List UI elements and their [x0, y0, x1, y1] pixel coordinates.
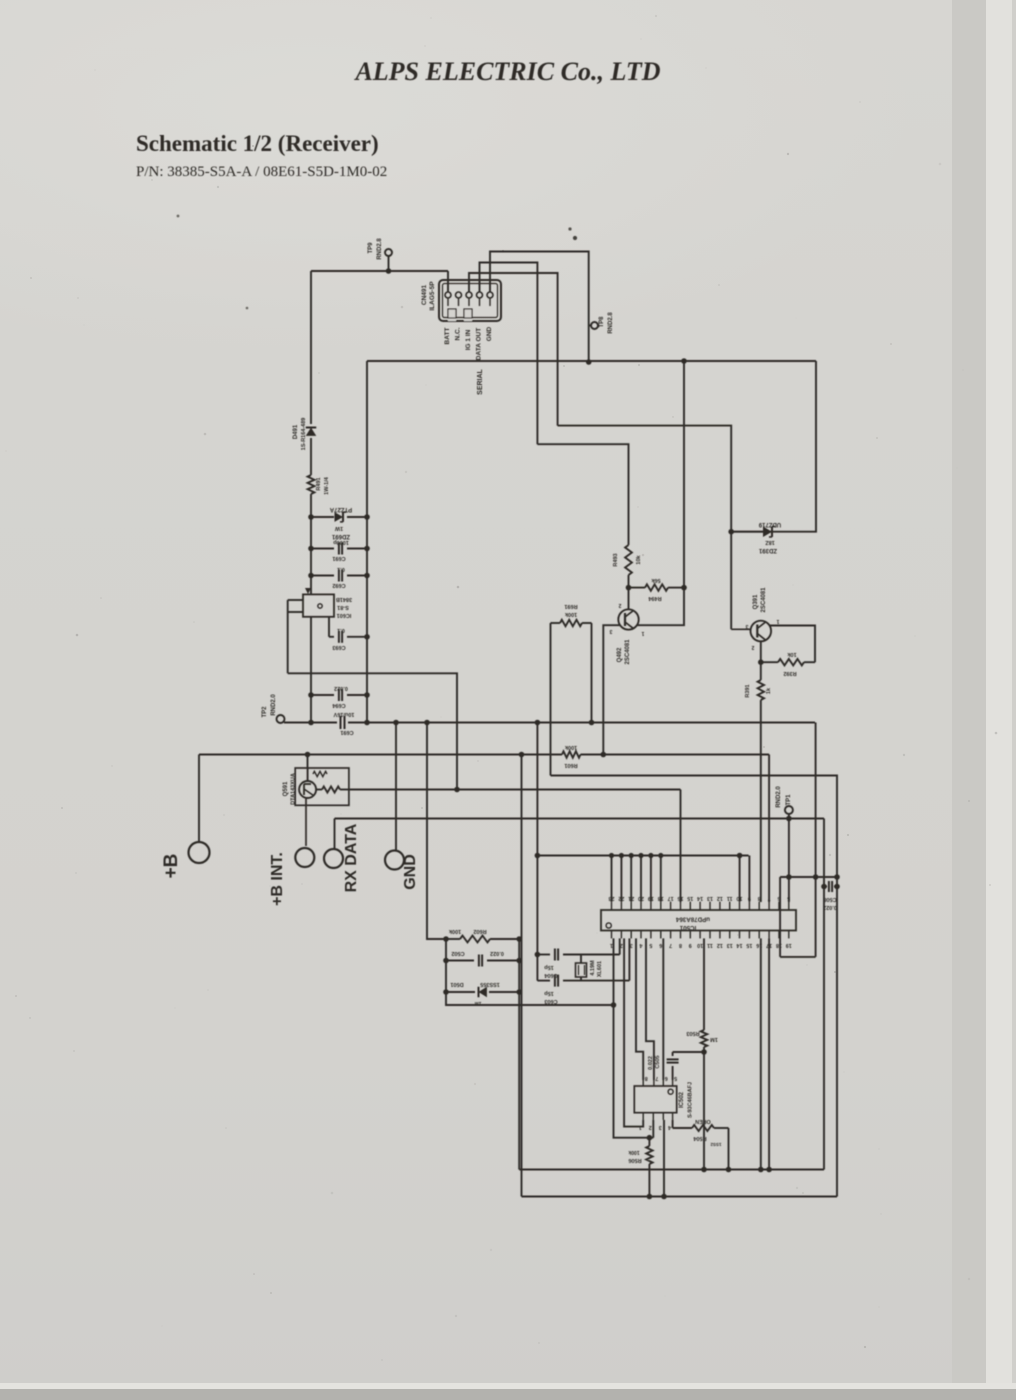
svg-text:R691: R691: [564, 603, 577, 609]
svg-text:2SC4081: 2SC4081: [761, 587, 767, 613]
wire base line drop to IC501 top pin: [680, 790, 682, 903]
svg-text:R602: R602: [473, 928, 486, 934]
svg-text:6: 6: [659, 942, 662, 948]
svg-text:1: 1: [776, 618, 779, 624]
junction feedback on base line: [454, 787, 460, 793]
terminal +B INT: [295, 848, 314, 867]
wire IC502 pin6 riser: [662, 938, 664, 1080]
wire Q391 emitter: [760, 641, 762, 662]
svg-text:1SS355: 1SS355: [480, 981, 500, 987]
svg-text:C502: C502: [451, 950, 464, 956]
capacitor C693 0.1: [329, 636, 334, 638]
capacitor C604 15p: [537, 954, 550, 956]
svg-text:C603: C603: [544, 998, 557, 1004]
capacitor C508 0.022: [824, 886, 827, 888]
wire riser A corner up to IC502 pin2: [652, 1120, 654, 1138]
crystal XL601 4.19MHz: [580, 955, 582, 964]
wire Q591 base line to IC501 pin riser: [349, 789, 681, 791]
svg-text:RND2.8: RND2.8: [377, 238, 383, 260]
capacitor C505 0.022: [672, 1066, 674, 1080]
svg-text:TP1: TP1: [786, 794, 792, 806]
test point TP8: [589, 325, 591, 327]
svg-text:Q492: Q492: [617, 647, 623, 662]
wires bus to IC501 top pins: [609, 853, 664, 902]
junction loop on rail: [589, 720, 595, 726]
svg-text:C691: C691: [332, 555, 345, 561]
junction bottom rail R503: [701, 1167, 707, 1173]
svg-text:R493: R493: [613, 553, 619, 566]
IC502 bottom pins: [639, 1113, 673, 1130]
wire lower rail y=1196.5: [522, 1196, 838, 1198]
svg-text:R504: R504: [692, 1135, 706, 1141]
svg-text:CN491: CN491: [421, 284, 428, 305]
svg-text:C691: C691: [340, 729, 353, 735]
wire R691 loop right vertical to rail: [591, 623, 593, 723]
wire +B long vertical down to lower rail: [521, 755, 523, 1197]
resistor R391 1k: [760, 662, 762, 680]
svg-text:Q591: Q591: [283, 781, 289, 796]
svg-text:RND2.0: RND2.0: [776, 786, 782, 808]
wire IC502 pin8 riser: [636, 938, 643, 1080]
node junction TP9 on BATT wire: [386, 268, 392, 274]
svg-text:14: 14: [697, 895, 703, 901]
wire bottom pin riser x=760.8 to bottom rail: [760, 938, 762, 1169]
svg-text:DATA OUT: DATA OUT: [476, 328, 483, 360]
svg-text:RX DATA: RX DATA: [343, 823, 360, 892]
wire horizontal y=775.5 to right vertical: [551, 776, 838, 1197]
wire main rail y=722.5: [284, 722, 337, 724]
svg-text:4: 4: [668, 1124, 671, 1130]
svg-text:SERIAL: SERIAL: [477, 368, 484, 394]
svg-text:0.022: 0.022: [823, 904, 837, 910]
junction R494/emitter riser: [681, 585, 687, 591]
svg-text:N.C.: N.C.: [455, 327, 462, 340]
svg-text:15p: 15p: [544, 964, 554, 970]
wire R691 loop left vertical: [550, 623, 552, 776]
svg-text:3: 3: [659, 1124, 662, 1130]
svg-text:1M: 1M: [710, 1036, 718, 1042]
junction lower rail pin3 drop: [661, 1194, 667, 1200]
svg-text:R391: R391: [745, 684, 751, 697]
connector CN491 pin 3: [466, 292, 472, 298]
ink mark: [568, 227, 571, 230]
svg-text:TP8: TP8: [599, 316, 605, 328]
svg-text:R494: R494: [647, 595, 661, 601]
wire bus right risers: [739, 856, 741, 902]
wire +B rail: [199, 754, 562, 756]
svg-text:15p: 15p: [544, 990, 554, 996]
svg-text:1W: 1W: [334, 525, 343, 531]
junction R506 tap: [647, 1135, 653, 1141]
terminal GND: [385, 851, 404, 870]
svg-text:0.022: 0.022: [334, 685, 348, 691]
junction emitter/R392: [758, 659, 764, 665]
junction y=1005 on riser A: [611, 1002, 617, 1008]
wire RX DATA horizontal to right side: [335, 818, 825, 820]
svg-text:S-81: S-81: [337, 604, 349, 610]
wire Q492 base drop: [603, 625, 619, 754]
svg-text:11: 11: [707, 942, 713, 948]
wire long horizontal net A y=362: [367, 360, 816, 362]
svg-text:1k: 1k: [766, 687, 772, 694]
svg-text:56k: 56k: [650, 577, 660, 583]
svg-text:19: 19: [786, 942, 792, 948]
svg-text:0.022: 0.022: [490, 950, 504, 956]
svg-text:15: 15: [746, 942, 752, 948]
transistor Q391 2SC4081: [751, 621, 772, 642]
svg-text:+B INT.: +B INT.: [269, 852, 286, 906]
svg-text:14: 14: [737, 942, 743, 948]
diode D501 1SS355: [446, 991, 475, 993]
svg-text:100k: 100k: [628, 1149, 639, 1155]
wire riser A IC501 pin to IC502: [614, 938, 654, 1137]
junction x=837 on loop: [834, 874, 840, 880]
svg-text:Q391: Q391: [753, 594, 759, 609]
svg-text:R503: R503: [686, 1030, 699, 1036]
svg-text:Schematic 1/2 (Receiver): Schematic 1/2 (Receiver): [136, 131, 379, 156]
svg-text:3: 3: [745, 623, 748, 629]
wire x=815.6 from rail to loop bottom: [815, 877, 817, 957]
wire wrap loop y=877: [780, 876, 837, 878]
svg-text:ZD391: ZD391: [758, 547, 777, 553]
svg-text:2SC4081: 2SC4081: [625, 639, 631, 665]
svg-text:ILAG5-5P: ILAG5-5P: [429, 281, 436, 311]
terminal +B: [189, 842, 210, 863]
svg-text:XL601: XL601: [597, 961, 603, 977]
svg-text:6: 6: [665, 1075, 668, 1081]
junction rail x=367: [364, 720, 370, 726]
svg-text:BATT: BATT: [444, 328, 451, 345]
IC501 uPD75304 box: [601, 910, 796, 931]
svg-text:D501: D501: [450, 981, 463, 987]
svg-text:TP2: TP2: [262, 706, 268, 718]
transistor Q591 DTA143XUA in box: [295, 768, 349, 805]
svg-text:IC601: IC601: [337, 612, 352, 618]
resistor R392 10k: [761, 661, 778, 663]
svg-text:8: 8: [758, 895, 761, 901]
junction TP8 riser on long horizontal: [586, 359, 592, 365]
junction +B rail long vertical: [519, 752, 525, 758]
wire riser B IC501 pin to IC502 pin1: [624, 938, 643, 1126]
svg-text:15: 15: [687, 895, 693, 901]
junction rail x=427: [424, 720, 430, 726]
wire IG riser horizontal to Q391 base riser: [558, 426, 732, 630]
svg-text:8: 8: [645, 1075, 648, 1081]
svg-text:1000p: 1000p: [333, 539, 349, 545]
test point TP1: [785, 806, 793, 814]
svg-text:7: 7: [669, 942, 672, 948]
svg-text:1S-R164-489: 1S-R164-489: [301, 418, 307, 451]
svg-text:1SS2: 1SS2: [710, 1142, 722, 1147]
svg-text:13: 13: [707, 895, 713, 901]
diode D491 1S-R164-489: [310, 271, 312, 424]
connector CN491 pin 2: [456, 292, 462, 298]
junction R602 left: [443, 936, 449, 942]
zener ZD691 PTZ27A: [311, 516, 334, 518]
junction rail x=396 GND riser: [393, 720, 399, 726]
wire wrap loop left vertical: [779, 877, 781, 957]
IC501 bottom pin stubs and numbers: [610, 931, 792, 949]
test point TP2: [277, 715, 285, 723]
svg-text:100k: 100k: [564, 744, 577, 750]
connector CN491 pin 5: [487, 292, 493, 298]
wire x=537 drop from rail to crystal block: [536, 723, 538, 981]
junction Q492 emitter riser on net A: [681, 358, 687, 364]
svg-text:R392: R392: [783, 670, 796, 676]
resistor R691 100k loop: [551, 622, 561, 624]
svg-text:0.022: 0.022: [648, 1056, 654, 1070]
resistor R504 OPEN: [672, 1120, 674, 1128]
svg-text:C508: C508: [823, 896, 836, 902]
svg-text:4.19M: 4.19M: [590, 960, 596, 976]
svg-text:UDZ719: UDZ719: [758, 521, 781, 527]
svg-text:IC501: IC501: [679, 924, 696, 931]
svg-text:OPEN: OPEN: [695, 1118, 711, 1124]
svg-text:1W-1/4: 1W-1/4: [324, 476, 330, 495]
wire +B rail right drop: [768, 755, 770, 903]
svg-text:13: 13: [727, 942, 733, 948]
svg-text:2: 2: [649, 1124, 652, 1130]
test point TP9: [385, 249, 392, 256]
junction bottom rail R504: [726, 1167, 732, 1173]
svg-text:16: 16: [678, 895, 684, 901]
wire net A right drop to zener: [731, 361, 816, 532]
svg-text:ZD691: ZD691: [331, 533, 350, 539]
junction +B rail Q591 emitter: [305, 752, 311, 758]
resistor R602 100k: [446, 938, 460, 940]
capacitor C691a 1000p: [311, 548, 334, 550]
resistor R506 100k: [648, 1138, 650, 1146]
svg-text:D491: D491: [293, 424, 299, 439]
terminal RX DATA: [324, 849, 343, 868]
svg-text:5: 5: [649, 942, 652, 948]
svg-text:uPD78A364: uPD78A364: [675, 916, 710, 923]
svg-text:17: 17: [668, 895, 674, 901]
svg-text:R601: R601: [564, 762, 577, 768]
svg-text:P/N: 38385-S5A-A / 08E61-S5D-1: P/N: 38385-S5A-A / 08E61-S5D-1M0-02: [136, 164, 387, 180]
junction rail x=537.4: [535, 720, 541, 726]
svg-text:12: 12: [717, 895, 723, 901]
IC501 top pin stubs and numbers: [609, 895, 791, 910]
wire pin5 GND riser to TP8 line: [490, 252, 589, 363]
junction TP1 line on C508 loop: [786, 874, 792, 880]
junction R503/C505: [701, 1049, 707, 1055]
svg-text:IG 1 IN: IG 1 IN: [465, 329, 472, 350]
svg-text:1: 1: [639, 1124, 642, 1130]
svg-text:100k: 100k: [448, 928, 461, 934]
svg-text:11: 11: [727, 895, 733, 901]
svg-text:2: 2: [751, 644, 754, 650]
svg-text:TP9: TP9: [368, 242, 374, 254]
junction collector/R494: [626, 585, 632, 591]
junction R602 right: [516, 936, 522, 942]
svg-text:5: 5: [674, 1075, 677, 1081]
wire BATT drop to connector pin 1: [447, 271, 449, 292]
svg-text:DTA143XUA: DTA143XUA: [291, 773, 297, 805]
wire IC601 left pins loop: [288, 599, 303, 601]
svg-text:3: 3: [609, 628, 612, 634]
wire pin3 IG riser: [469, 273, 558, 426]
svg-text:100k: 100k: [564, 611, 577, 617]
resistor R493 10k: [625, 545, 632, 575]
svg-text:PTZ27A: PTZ27A: [329, 506, 352, 512]
wire bus y=855.5: [537, 855, 748, 857]
wire collector chain from pin4 riser: [537, 444, 628, 545]
svg-text:0.1: 0.1: [337, 627, 345, 633]
connector CN491 pin 1: [445, 292, 451, 298]
svg-text:S-93C46BAFJ: S-93C46BAFJ: [688, 1082, 694, 1118]
wire pin4 DATA OUT riser: [480, 263, 538, 445]
junction lower rail R506: [647, 1194, 653, 1200]
svg-text:7: 7: [768, 895, 771, 901]
svg-text:3841B: 3841B: [336, 596, 352, 602]
junction bottom rail x=760.8: [758, 1167, 764, 1173]
capacitor C692 0.1: [311, 575, 334, 577]
wire TP1 drop to pin 23: [788, 819, 790, 903]
svg-text:0.1: 0.1: [337, 566, 345, 572]
svg-text:8: 8: [679, 942, 682, 948]
svg-text:+B: +B: [161, 854, 182, 879]
svg-text:10k: 10k: [636, 554, 642, 564]
svg-text:IC502: IC502: [679, 1091, 685, 1108]
IC502 S-93C46BAFJ box: [634, 1086, 676, 1113]
svg-text:C694: C694: [331, 702, 345, 708]
junction zener line with base riser: [728, 529, 734, 535]
svg-text:18: 18: [776, 942, 782, 948]
wire BATT horizontal: [311, 270, 448, 272]
junction +B rail Q492 base: [601, 752, 607, 758]
svg-text:4: 4: [640, 942, 643, 948]
capacitor C691 10u/16V electrolytic: [340, 716, 342, 729]
wire feedback to base line: [288, 673, 457, 789]
resistor R494 56k: [629, 587, 646, 589]
svg-text:10u/16V: 10u/16V: [333, 711, 354, 717]
wire bottom pin riser x=772.5 to bottom rail: [768, 938, 770, 1169]
svg-text:10k: 10k: [786, 651, 796, 657]
junction rail x=311: [308, 720, 314, 726]
wire left vertical to y=1005: [446, 939, 614, 1005]
wire R504 drop to bottom rail: [728, 1128, 730, 1170]
svg-text:RND2.8: RND2.8: [608, 312, 614, 334]
svg-text:ALPS ELECTRIC Co., LTD: ALPS ELECTRIC Co., LTD: [353, 57, 660, 86]
resistor R601 100k: [562, 751, 581, 757]
wire x=427 drop to R602: [427, 723, 446, 940]
IC502 top pins: [643, 1075, 677, 1086]
wire Q391 collector: [770, 626, 816, 663]
wire bottom rail y=1169.5: [519, 1169, 824, 1171]
transistor Q492 2SC4081: [618, 609, 638, 629]
wire second vertical x=367: [366, 361, 368, 723]
junction bottom rail x=772.5: [766, 1167, 772, 1173]
svg-text:1: 1: [641, 630, 644, 636]
capacitor C694 0.022: [311, 694, 334, 696]
resistor R491: [308, 475, 315, 494]
svg-text:C692: C692: [332, 582, 345, 588]
wire wrap loop bottom y=956.9: [780, 956, 816, 958]
svg-text:7: 7: [655, 1075, 658, 1081]
wire IC601 bottom to C693: [310, 617, 312, 723]
junction bus start: [535, 853, 541, 859]
zener diode ZD391: [763, 526, 772, 537]
svg-text:R491: R491: [316, 477, 322, 490]
svg-text:10: 10: [697, 942, 703, 948]
svg-text:C505: C505: [655, 1055, 661, 1068]
svg-text:GND: GND: [486, 326, 493, 341]
wire RX DATA line right drop: [823, 819, 825, 1170]
capacitor C502 0.022: [446, 960, 474, 962]
wire rail right end drop: [815, 723, 817, 878]
svg-text:C693: C693: [332, 644, 345, 650]
wire IC502 pin3 drop to lower rail: [663, 1120, 665, 1197]
wire Q591 emitter to +B rail: [307, 755, 309, 769]
resistor R503 1M: [703, 938, 705, 1030]
wire C604 riser to pin: [619, 938, 621, 954]
svg-text:5: 5: [787, 895, 790, 901]
svg-text:GND: GND: [402, 854, 419, 890]
regulator IC601: [303, 594, 334, 616]
svg-text:18Z: 18Z: [765, 539, 775, 545]
svg-text:R506: R506: [628, 1157, 641, 1163]
capacitor C603 15p: [537, 980, 550, 982]
wire Q492 emitter to riser: [637, 361, 685, 625]
connector CN491 pin 4: [477, 292, 483, 298]
wire IC502 pin7 riser: [646, 938, 654, 1080]
svg-text:2: 2: [618, 602, 621, 608]
wire C603 riser to pin: [628, 938, 630, 980]
svg-text:12: 12: [717, 942, 723, 948]
svg-text:RND2.0: RND2.0: [271, 694, 277, 716]
connector CN491 ILAG5-5P: [439, 280, 501, 321]
svg-text:9: 9: [689, 942, 692, 948]
wire D501 right vertical down to bottom rail: [518, 939, 520, 1170]
junction x=815.6 on loop: [813, 874, 819, 880]
